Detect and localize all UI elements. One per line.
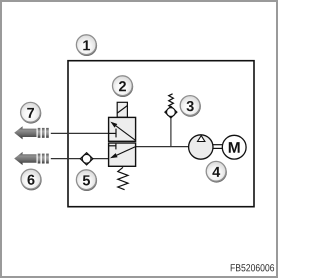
- wire: line from flow arrow 6 through check valve 5 to valve left bottom port: [51, 158, 111, 160]
- solenoid actuator on valve: [117, 102, 127, 117]
- callout 4: [206, 161, 227, 182]
- valve bottom position blocked port stub and tick: [109, 144, 116, 150]
- wire: relief valve drop line: [170, 117, 172, 146]
- valve bottom position flow arrow: [110, 147, 136, 159]
- flow arrow 7: [14, 126, 49, 139]
- valve top position flow arrow: [110, 122, 135, 141]
- callout 7: [21, 102, 42, 123]
- pump (item 4): [189, 135, 213, 159]
- relief valve spring (item 3): [169, 94, 174, 107]
- system boundary frame: [68, 61, 254, 207]
- flow arrow 6: [14, 152, 49, 165]
- valve return spring: [118, 167, 128, 189]
- callout 6: [21, 169, 42, 190]
- wire: line from flow arrow 7 to valve left top port: [51, 132, 116, 134]
- check valve (item 5): [80, 153, 93, 165]
- valve top position blocked port stub and tick: [109, 129, 116, 138]
- motor M circle: [222, 135, 246, 159]
- wire: line from valve right port to pump: [136, 146, 189, 148]
- callout 5: [76, 170, 97, 191]
- valve body (two position boxes): [109, 117, 136, 166]
- callout 3: [180, 96, 201, 117]
- pump direction triangle: [198, 136, 205, 142]
- callout 1: [76, 35, 97, 56]
- relief valve check symbol (item 3): [165, 106, 177, 118]
- callout 2: [112, 76, 133, 97]
- shaft coupling between pump and motor: [213, 145, 222, 149]
- figure code FB5206006: [231, 264, 274, 271]
